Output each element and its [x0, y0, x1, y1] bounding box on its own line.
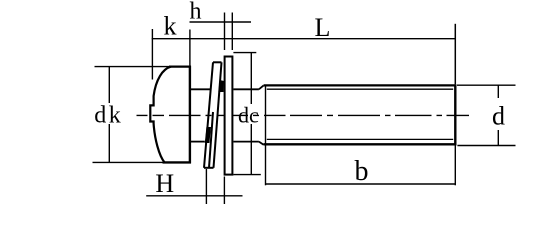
H extension line (flat washer bottom)	[223, 177, 225, 205]
dc bottom extension bar	[233, 174, 260, 176]
thread crest line top (major dia)	[264, 84, 455, 86]
head top edge	[169, 65, 191, 67]
shank between washer and thread runout (bottom)	[233, 141, 259, 143]
L right extension line (above tip)	[454, 24, 456, 85]
svg-text:k: k	[164, 12, 177, 41]
d top extension line	[457, 84, 516, 86]
k/L shared extension line (head seat face, above head)	[189, 30, 191, 67]
spring washer split overlap (dark wedge, upper-right)	[218, 80, 224, 92]
shank between head and spring washer (top)	[190, 88, 210, 90]
spring washer (split lock washer, side view)	[204, 62, 222, 168]
k extension line (head front)	[151, 29, 153, 80]
svg-text:dc: dc	[238, 103, 259, 128]
thread crest line bottom (major dia)	[264, 143, 455, 145]
shank between head and spring washer (bottom)	[190, 141, 205, 143]
H left extension: none visible; H dimension line	[146, 195, 242, 197]
svg-text:L: L	[315, 13, 331, 42]
thread runout chamfer bottom	[259, 142, 264, 145]
thread root line bottom (minor dia)	[267, 138, 453, 140]
h dimension line	[190, 21, 252, 23]
b dimension line	[265, 183, 455, 185]
b left extension line (thread runout)	[265, 85, 267, 185]
dk dimension line (vertical, split for text)	[108, 67, 110, 163]
thread root line top (minor dia)	[267, 88, 453, 90]
h extension lines (flat washer faces)	[225, 13, 233, 51]
dk top extension line	[95, 66, 172, 68]
centerline (dash-dot axis)	[137, 114, 470, 116]
screw head (pan head, side view)	[150, 67, 171, 163]
thread runout chamfer top	[259, 85, 264, 89]
dk bottom extension line	[93, 161, 165, 163]
dc dimension line (vertical, split for text)	[250, 53, 252, 175]
shank between washer and thread runout (top)	[233, 88, 259, 90]
flat washer (plain washer, side view)	[225, 57, 233, 175]
head bottom edge (seat)	[163, 161, 192, 163]
svg-text:b: b	[355, 156, 369, 187]
svg-text:h: h	[190, 0, 202, 25]
H extension line (spring washer bottom)	[205, 169, 207, 204]
dc top extension bar	[233, 52, 256, 54]
spring washer split overlap (dark wedge, middle-left)	[205, 127, 211, 143]
svg-text:dk: dk	[94, 103, 123, 129]
d bottom extension line	[457, 145, 515, 147]
svg-text:H: H	[155, 169, 174, 198]
svg-text:d: d	[492, 102, 505, 131]
k and L dimension line	[152, 38, 456, 40]
head right face	[189, 66, 191, 164]
thread end face (tip)	[454, 84, 456, 145]
d dimension line (vertical, split for text)	[497, 85, 499, 145]
b right extension line (below tip)	[454, 146, 456, 186]
